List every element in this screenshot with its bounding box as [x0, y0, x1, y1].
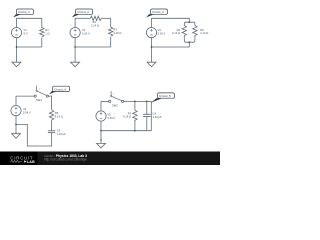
wire top-right ckt5 — [124, 101, 152, 130]
resistor R3 — [108, 27, 112, 36]
wire parallel top bar — [184, 22, 195, 25]
node flag Circuit_2 — [72, 9, 93, 17]
svg-text:6.14 Ω: 6.14 Ω — [55, 115, 63, 119]
svg-text:V2: V2 — [82, 28, 86, 32]
logo resistor zigzag — [10, 160, 23, 162]
node junction ckt3 left — [151, 46, 153, 48]
svg-text:V1: V1 — [24, 28, 28, 32]
wire top-left ckt2 — [75, 17, 90, 19]
svg-text:6.14 Ω: 6.14 Ω — [123, 115, 131, 119]
resistor R2 — [90, 16, 101, 20]
svg-text:R4: R4 — [177, 28, 181, 32]
wire R7 top lead — [134, 101, 136, 110]
voltage source V5 — [100, 101, 102, 130]
svg-text:1 Ω: 1 Ω — [45, 32, 49, 36]
svg-text:V5: V5 — [108, 113, 112, 117]
voltage source V1 — [16, 18, 18, 47]
switch SW2 — [109, 100, 111, 102]
capacitor C4 — [143, 114, 150, 116]
svg-text:C4: C4 — [153, 112, 157, 116]
svg-text:Circuit_1: Circuit_1 — [18, 10, 30, 14]
wire top ckt3 — [152, 18, 190, 22]
node junction ckt1 — [16, 46, 18, 48]
node junction ckt4 — [15, 124, 17, 126]
resistor R6 — [49, 110, 53, 120]
svg-text:5 V: 5 V — [24, 32, 28, 36]
ground ckt5 — [97, 143, 106, 148]
svg-text:3.16 Ω: 3.16 Ω — [113, 31, 121, 35]
svg-text:LAB: LAB — [27, 160, 35, 164]
wire mid ckt4 — [51, 120, 53, 131]
svg-text:R6: R6 — [55, 111, 59, 115]
wire parallel bottom bar — [184, 39, 195, 42]
svg-text:V3: V3 — [158, 28, 162, 32]
voltage source V2 — [74, 18, 76, 47]
voltage source V4 — [15, 96, 17, 124]
svg-text:1.16 µF: 1.16 µF — [57, 132, 67, 136]
switch SW1 — [34, 95, 36, 97]
wire top ckt1 — [17, 17, 42, 19]
wire ground stem ckt4 — [15, 124, 17, 133]
ground ckt1 — [12, 62, 21, 66]
node flag Circuit_3 — [146, 9, 167, 17]
svg-text:R5: R5 — [200, 28, 204, 32]
wire bottom ckt5 — [101, 130, 151, 132]
svg-text:0.16 V: 0.16 V — [82, 32, 90, 36]
svg-text:Circuit_2: Circuit_2 — [77, 10, 89, 14]
ground ckt4 — [12, 134, 21, 139]
svg-text:5.54 V: 5.54 V — [23, 111, 31, 115]
capacitor C3 — [48, 131, 55, 133]
svg-text:2.14 Ω: 2.14 Ω — [91, 23, 99, 27]
wire ground stem ckt2 — [74, 47, 76, 62]
wire ground stem ckt1 — [16, 47, 18, 62]
wire right ckt2 — [110, 18, 112, 47]
svg-text:C3: C3 — [57, 128, 61, 132]
svg-text:1.16 µF: 1.16 µF — [153, 115, 163, 119]
switch SW1 pivot — [36, 90, 37, 91]
svg-text:http://circuitlab.com/c/3km9gw: http://circuitlab.com/c/3km9gw — [44, 158, 87, 162]
voltage source V3 — [151, 18, 153, 47]
wire bottom ckt2 — [75, 46, 111, 48]
node junction R7 bottom — [134, 130, 136, 132]
ground ckt2 — [71, 62, 80, 66]
switch SW2 pivot — [111, 95, 112, 96]
svg-text:R3: R3 — [113, 28, 117, 32]
svg-text:5.54 V: 5.54 V — [108, 116, 116, 120]
node junction C4 top — [146, 101, 148, 103]
node junction ckt5 ground — [100, 130, 102, 132]
svg-text:SW1: SW1 — [36, 98, 42, 102]
svg-text:V4: V4 — [23, 107, 27, 111]
wire bottom dogleg ckt4 — [16, 124, 52, 146]
svg-text:Circuit_5: Circuit_5 — [159, 94, 171, 98]
wire top-right ckt4 — [49, 96, 52, 110]
wire top-left ckt5 — [101, 100, 109, 102]
node flag Circuit_4 — [49, 86, 70, 94]
resistor R1 — [40, 28, 44, 37]
svg-text:R1: R1 — [45, 28, 49, 32]
node flag Circuit_5 — [151, 93, 175, 103]
wire bottom stub ckt3 — [152, 42, 190, 47]
svg-text:2.14 Ω: 2.14 Ω — [200, 31, 208, 35]
svg-text:3.16 V: 3.16 V — [158, 32, 166, 36]
resistor R5 — [193, 26, 197, 39]
logo arrow — [24, 160, 26, 163]
svg-text:Circuit_3: Circuit_3 — [152, 10, 164, 14]
wire right ckt1 — [41, 18, 43, 47]
svg-text:Circuit_4: Circuit_4 — [54, 87, 66, 91]
wire R7 bottom lead — [134, 120, 136, 131]
node junction ckt3 bottom — [188, 41, 190, 43]
wire C4 top lead — [146, 101, 148, 114]
svg-text:SW2: SW2 — [112, 103, 118, 107]
svg-text:2.14 Ω: 2.14 Ω — [172, 31, 180, 35]
resistor R4 — [182, 26, 186, 39]
wire ground stem ckt3 — [151, 47, 153, 62]
resistor R7 — [133, 110, 137, 120]
node flag Circuit_1 — [13, 9, 33, 17]
node junction ckt5 stem — [100, 139, 102, 141]
node junction ckt2 — [74, 46, 76, 48]
wire top-right ckt2 — [101, 17, 111, 19]
wire bottom ckt1 — [17, 46, 42, 48]
node junction R7 top — [134, 101, 136, 103]
wire ground stem ckt5 — [100, 131, 102, 144]
wire C4 bottom lead — [146, 117, 148, 131]
ground ckt3 — [147, 62, 156, 66]
wire top-left ckt4 — [16, 95, 34, 97]
node junction ckt3 top — [188, 21, 190, 23]
